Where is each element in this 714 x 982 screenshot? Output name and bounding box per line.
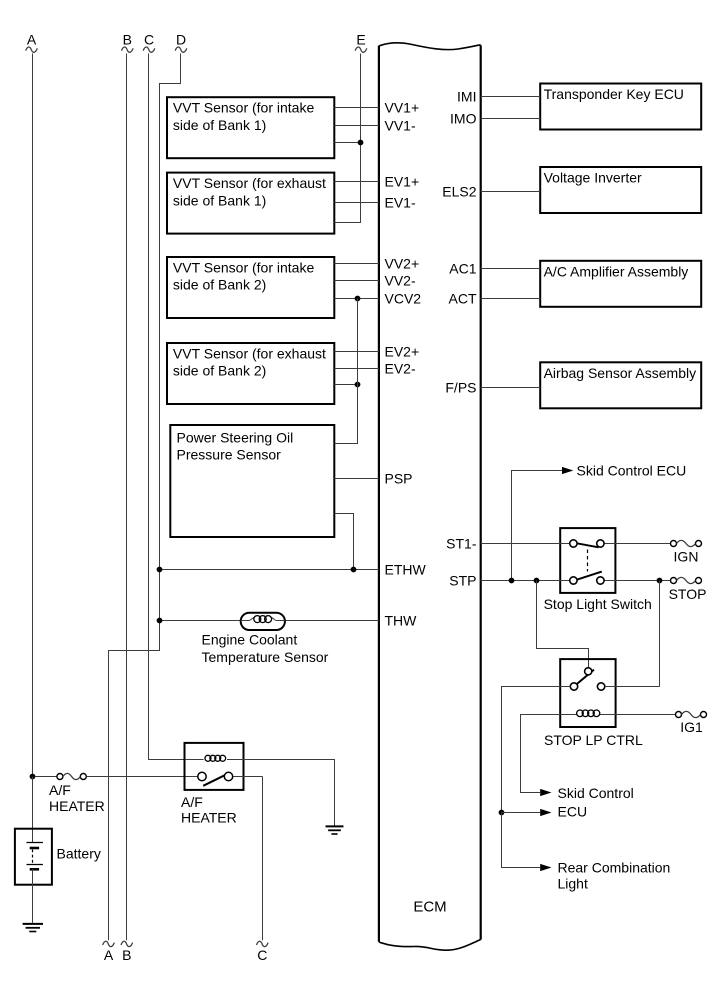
svg-text:Battery: Battery xyxy=(57,846,101,862)
svg-text:Power Steering Oil: Power Steering Oil xyxy=(177,429,294,445)
svg-text:ACT: ACT xyxy=(449,291,477,307)
svg-text:VVT Sensor (for exhaust: VVT Sensor (for exhaust xyxy=(173,175,326,191)
svg-text:ELS2: ELS2 xyxy=(442,184,476,200)
svg-text:STOP LP CTRL: STOP LP CTRL xyxy=(544,732,643,748)
svg-text:Pressure Sensor: Pressure Sensor xyxy=(177,447,282,463)
svg-text:IMO: IMO xyxy=(450,111,477,127)
svg-text:VV2-: VV2- xyxy=(385,273,416,289)
svg-text:A/F: A/F xyxy=(49,782,71,798)
svg-text:Light: Light xyxy=(558,875,588,891)
svg-text:Temperature Sensor: Temperature Sensor xyxy=(202,649,329,665)
svg-text:STP: STP xyxy=(449,573,476,589)
svg-text:side of Bank 2): side of Bank 2) xyxy=(173,363,266,379)
svg-text:Voltage Inverter: Voltage Inverter xyxy=(544,170,642,186)
svg-text:EV1+: EV1+ xyxy=(385,174,420,190)
svg-text:ST1-: ST1- xyxy=(446,536,477,552)
svg-text:D: D xyxy=(176,32,186,48)
svg-text:side of Bank 2): side of Bank 2) xyxy=(173,277,266,293)
svg-text:side of Bank 1): side of Bank 1) xyxy=(173,192,266,208)
svg-text:side of Bank 1): side of Bank 1) xyxy=(173,117,266,133)
svg-text:IMI: IMI xyxy=(457,89,476,105)
svg-text:A: A xyxy=(104,947,114,963)
svg-text:Skid Control: Skid Control xyxy=(558,785,634,801)
svg-text:ECM: ECM xyxy=(413,899,446,916)
svg-text:ETHW: ETHW xyxy=(385,562,427,578)
svg-text:VVT Sensor (for intake: VVT Sensor (for intake xyxy=(173,259,315,275)
svg-text:C: C xyxy=(144,32,154,48)
svg-text:VV1+: VV1+ xyxy=(385,100,420,116)
svg-text:Engine Coolant: Engine Coolant xyxy=(202,632,298,648)
svg-text:THW: THW xyxy=(385,613,418,629)
svg-text:Stop Light Switch: Stop Light Switch xyxy=(544,596,652,612)
svg-text:VCV2: VCV2 xyxy=(385,291,422,307)
svg-text:PSP: PSP xyxy=(385,471,413,487)
svg-text:Transponder Key ECU: Transponder Key ECU xyxy=(544,86,684,102)
svg-text:VVT Sensor (for intake: VVT Sensor (for intake xyxy=(173,100,315,116)
svg-text:STOP: STOP xyxy=(669,586,707,602)
svg-text:VV2+: VV2+ xyxy=(385,256,420,272)
svg-text:EV2-: EV2- xyxy=(385,361,416,377)
svg-text:AC1: AC1 xyxy=(449,261,476,277)
svg-text:A: A xyxy=(27,32,37,48)
svg-text:VV1-: VV1- xyxy=(385,118,416,134)
svg-text:HEATER: HEATER xyxy=(49,798,105,814)
svg-text:B: B xyxy=(123,32,132,48)
svg-text:C: C xyxy=(257,947,267,963)
svg-text:IG1: IG1 xyxy=(680,719,703,735)
svg-text:ECU: ECU xyxy=(558,804,588,820)
svg-text:Rear Combination: Rear Combination xyxy=(558,859,671,875)
svg-text:EV2+: EV2+ xyxy=(385,344,420,360)
svg-text:A/F: A/F xyxy=(181,794,203,810)
svg-text:HEATER: HEATER xyxy=(181,810,237,826)
svg-text:IGN: IGN xyxy=(674,549,699,565)
svg-text:F/PS: F/PS xyxy=(445,380,476,396)
svg-text:Airbag Sensor Assembly: Airbag Sensor Assembly xyxy=(544,365,697,381)
svg-text:B: B xyxy=(122,947,131,963)
svg-text:VVT Sensor (for exhaust: VVT Sensor (for exhaust xyxy=(173,345,326,361)
svg-text:EV1-: EV1- xyxy=(385,195,416,211)
svg-text:E: E xyxy=(356,32,365,48)
svg-text:Skid Control ECU: Skid Control ECU xyxy=(577,463,687,479)
svg-text:A/C Amplifier Assembly: A/C Amplifier Assembly xyxy=(544,263,689,279)
